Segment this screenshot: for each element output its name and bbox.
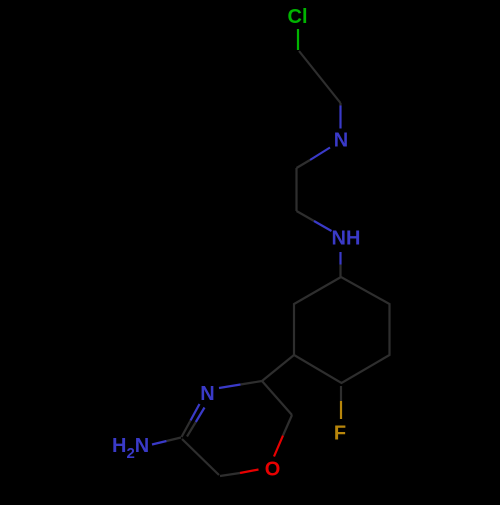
svg-text:NH: NH — [332, 228, 361, 250]
svg-text:Cl: Cl — [288, 6, 308, 28]
svg-text:N: N — [334, 130, 348, 152]
svg-text:N: N — [200, 383, 214, 405]
svg-text:F: F — [334, 423, 346, 445]
svg-text:O: O — [265, 459, 281, 481]
